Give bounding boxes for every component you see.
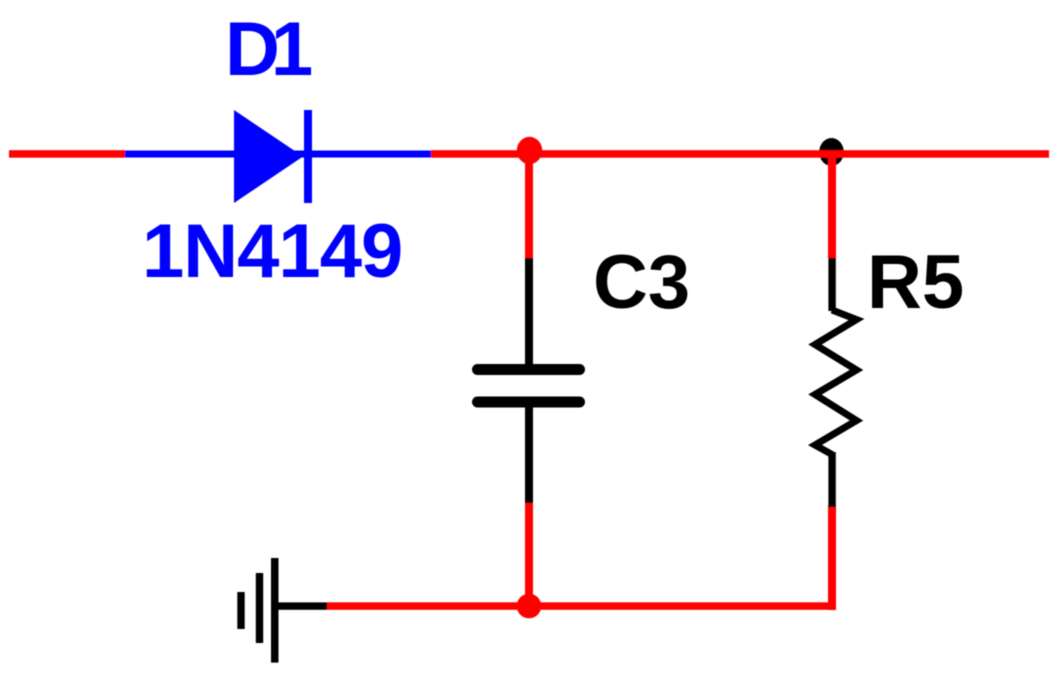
svg-text:R5: R5: [867, 240, 964, 325]
svg-text:1N4149: 1N4149: [142, 209, 402, 294]
svg-text:D1: D1: [225, 7, 312, 92]
svg-text:C3: C3: [593, 240, 690, 325]
